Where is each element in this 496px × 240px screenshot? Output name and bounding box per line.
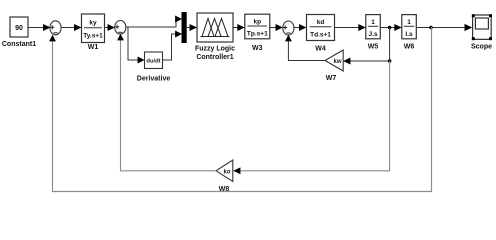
svg-text:kp: kp (254, 19, 262, 26)
svg-text:Controller1: Controller1 (196, 54, 233, 61)
fuzzy logic controller U1 (195, 13, 235, 61)
wire junction down to gain W8 (233, 61, 389, 174)
svg-text:W4: W4 (315, 46, 326, 53)
svg-text:ky: ky (89, 20, 97, 27)
svg-text:Td.s+1: Td.s+1 (310, 31, 331, 38)
svg-text:Ty.s+1: Ty.s+1 (83, 33, 103, 40)
wire outer feedback junction W6 to S1 bottom (49, 28, 431, 192)
constant Constant1 (2, 17, 36, 48)
wire mux to Fuzzy Logic Controller1 (186, 24, 197, 31)
svg-text:kw: kw (333, 59, 341, 65)
wire W1 to sum S2 (105, 24, 116, 31)
svg-text:ko: ko (223, 169, 230, 175)
node junction after W5 (388, 26, 392, 30)
wire W3 to sum S3 (270, 24, 283, 31)
wire W4 to W5 (335, 24, 366, 31)
wire S2 to mux input 1 (126, 16, 182, 27)
svg-text:I.s: I.s (405, 31, 413, 38)
wire Derivative to mux input 2 (163, 31, 183, 60)
svg-text:Fuzzy Logic: Fuzzy Logic (195, 46, 235, 53)
transfer function W5 (366, 15, 381, 51)
node junction on W7/W8 branch (388, 59, 392, 63)
svg-text:1: 1 (371, 19, 375, 26)
svg-text:W7: W7 (326, 75, 337, 82)
node junction after W6 (429, 26, 433, 30)
transfer function W4 (307, 15, 335, 53)
svg-text:Derivative: Derivative (137, 76, 171, 83)
wire Fuzzy to W3 (233, 24, 245, 31)
sum S3 (283, 21, 294, 35)
svg-text:Scope: Scope (471, 44, 492, 51)
sum S2 (115, 21, 126, 35)
svg-text:Tp.s+1: Tp.s+1 (247, 31, 268, 38)
wire Constant1 to sum S1 (28, 24, 51, 31)
wire W8 to S2 bottom (117, 34, 216, 171)
wire W7 to S3 bottom (285, 35, 325, 61)
derivative block du/dt (137, 52, 171, 83)
mux Mux (182, 13, 186, 43)
svg-text:J.s: J.s (368, 31, 377, 38)
gain W8 (216, 160, 233, 193)
transfer function W3 (245, 14, 270, 52)
wire branch S2 output down to Derivative (128, 27, 145, 63)
transfer function W1 (82, 14, 105, 51)
gain W7 (325, 50, 343, 82)
sum S1 (50, 21, 61, 35)
svg-text:W5: W5 (368, 44, 379, 51)
wire W5 to W6 (380, 24, 402, 31)
svg-text:kd: kd (317, 19, 325, 26)
wire junction W5 down and left to gain W7 (343, 28, 389, 65)
wire W6 to Scope (416, 24, 472, 31)
svg-text:W1: W1 (88, 44, 99, 51)
svg-text:90: 90 (15, 25, 23, 32)
svg-text:W3: W3 (252, 45, 263, 52)
svg-text:du/dt: du/dt (146, 59, 160, 65)
wire S3 to W4 (294, 24, 307, 31)
svg-text:W6: W6 (404, 44, 415, 51)
svg-text:Constant1: Constant1 (2, 41, 36, 48)
transfer function W6 (402, 15, 417, 51)
svg-text:1: 1 (407, 19, 411, 26)
scope Scope (471, 14, 492, 50)
wire S1 to W1 (61, 24, 81, 31)
